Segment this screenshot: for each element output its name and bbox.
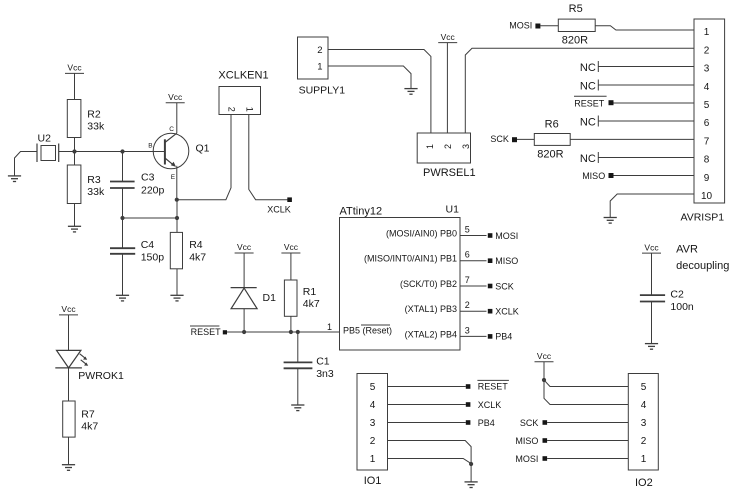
wire SCK to R6 — [517, 138, 534, 140]
svg-text:Vcc: Vcc — [644, 242, 659, 252]
pin 3 U1 PB4 — [405, 325, 487, 339]
svg-text:(MOSI/AIN0) PB0: (MOSI/AIN0) PB0 — [386, 229, 457, 239]
svg-text:PWROK1: PWROK1 — [78, 370, 124, 382]
wire Vcc to R1 — [290, 253, 292, 280]
svg-text:1: 1 — [327, 322, 332, 332]
power Vcc (above IO2) — [535, 351, 554, 362]
wire R4 to ground — [176, 269, 178, 296]
pin 6 U1 PB1 — [364, 250, 487, 264]
svg-text:3: 3 — [704, 64, 710, 75]
connector SUPPLY1 — [298, 37, 346, 97]
svg-text:MOSI: MOSI — [509, 20, 532, 30]
node MOSI net label (R5) — [509, 20, 540, 30]
svg-text:SUPPLY1: SUPPLY1 — [299, 85, 346, 97]
svg-text:7: 7 — [704, 136, 710, 147]
svg-text:U1: U1 — [446, 204, 460, 216]
node MISO net label (U1) — [488, 256, 519, 266]
wire SCK to IO2 pin3 — [547, 422, 628, 424]
svg-text:2: 2 — [370, 436, 376, 447]
crystal U2 — [37, 133, 59, 163]
svg-text:U2: U2 — [38, 133, 52, 145]
wire R6 to AVRISP1 pin7 — [570, 138, 694, 140]
node MOSI net label (IO2) — [515, 454, 547, 464]
LED PWROK1 — [55, 350, 124, 381]
wire MISO to AVRISP1 pin9 — [614, 175, 695, 177]
wire MISO to IO2 pin2 — [547, 440, 628, 442]
ground (below C1) — [291, 405, 304, 411]
ground (left of U2) — [8, 176, 21, 182]
svg-text:2: 2 — [317, 45, 322, 56]
svg-text:4k7: 4k7 — [189, 251, 206, 263]
node junction C1 on rail — [296, 330, 300, 334]
svg-text:2: 2 — [227, 107, 237, 112]
wire R5 to AVRISP1 pin1 — [595, 26, 694, 30]
svg-text:R5: R5 — [569, 3, 583, 15]
svg-text:B: B — [148, 143, 152, 150]
svg-text:Vcc: Vcc — [237, 242, 252, 252]
wire Vcc to IO2 junction — [543, 362, 545, 380]
svg-text:33k: 33k — [87, 186, 105, 198]
svg-text:Vcc: Vcc — [284, 242, 299, 252]
svg-text:(SCK/T0) PB2: (SCK/T0) PB2 — [400, 279, 457, 289]
wire C2 to ground — [651, 302, 653, 344]
svg-text:3n3: 3n3 — [316, 368, 334, 380]
svg-text:PB4: PB4 — [478, 418, 495, 428]
wire junction to IO2 pin5 — [544, 380, 628, 387]
resistor R4 4k7 — [170, 232, 206, 268]
node RESET net label (IO1) — [466, 380, 509, 391]
svg-text:R4: R4 — [189, 239, 203, 251]
svg-text:RESET: RESET — [574, 98, 605, 108]
wire IO1 pin3 to PB4 — [388, 422, 466, 424]
wire IO1 pin4 to XCLK — [388, 404, 466, 406]
svg-text:4k7: 4k7 — [303, 298, 320, 310]
pin 7 U1 PB2 — [400, 275, 487, 289]
wire Vcc to C2 — [651, 253, 653, 295]
wire node A to Q1 base — [75, 151, 165, 153]
connector XCLKEN1 — [218, 70, 268, 115]
wire Vcc to PWRSEL1 pin2 — [446, 43, 448, 133]
node junction emitter — [175, 198, 179, 202]
wire SUPPLY1 pin2 to PWRSEL1 pin1 — [328, 50, 431, 134]
svg-text:NC: NC — [580, 62, 596, 74]
svg-text:NC: NC — [580, 116, 596, 128]
svg-text:33k: 33k — [87, 121, 105, 133]
node MOSI net label (U1) — [488, 231, 519, 241]
capacitor C3 220p — [110, 152, 165, 219]
svg-text:RESET: RESET — [191, 327, 222, 337]
svg-text:PWRSEL1: PWRSEL1 — [423, 167, 476, 179]
svg-text:5: 5 — [370, 382, 376, 393]
wire R2 to node A — [74, 138, 76, 152]
connector AVRISP1 — [681, 19, 725, 224]
svg-text:XCLK: XCLK — [267, 205, 291, 215]
wire RESET rail to U1 pin1 — [227, 331, 340, 333]
svg-text:C1: C1 — [316, 356, 330, 368]
wire Vcc to LED — [68, 315, 70, 351]
ground (below R4) — [170, 295, 183, 301]
connector PWRSEL1 — [417, 133, 475, 179]
svg-text:1: 1 — [245, 107, 255, 112]
wire Vcc to D1 — [243, 253, 245, 288]
wire PWRSEL1 pin3 to AVRISP1 pin2 — [465, 48, 694, 133]
svg-text:PB4: PB4 — [495, 332, 512, 342]
svg-text:1: 1 — [425, 144, 435, 149]
wire IO1 pin1 to ground node — [388, 459, 472, 464]
node junction D1 on rail — [242, 330, 246, 334]
svg-text:150p: 150p — [141, 251, 165, 263]
svg-text:PB5 (Reset): PB5 (Reset) — [343, 325, 392, 335]
wire IO1 pin2 to ground node — [388, 441, 472, 465]
svg-text:2: 2 — [443, 144, 453, 149]
svg-text:3: 3 — [461, 144, 471, 149]
svg-text:1: 1 — [317, 62, 322, 73]
svg-text:(XTAL2) PB4: (XTAL2) PB4 — [405, 329, 457, 339]
node junction bus right — [175, 216, 179, 220]
resistor R1 4k7 — [284, 280, 319, 316]
note AVR decoupling — [676, 243, 729, 272]
ground (below R3) — [68, 226, 81, 232]
node SCK net label (U1) — [488, 281, 514, 291]
svg-text:3: 3 — [641, 418, 647, 429]
svg-text:3: 3 — [370, 418, 376, 429]
svg-text:Vcc: Vcc — [67, 63, 82, 73]
wire NC to AVRISP1 pin3 — [598, 66, 694, 68]
node MISO net label (IO2) — [515, 436, 547, 446]
svg-text:MISO: MISO — [495, 256, 518, 266]
svg-text:820R: 820R — [537, 149, 563, 161]
svg-text:AVR: AVR — [676, 243, 698, 255]
wire ground to crystal U2 — [15, 152, 38, 176]
svg-text:MOSI: MOSI — [515, 454, 538, 464]
ground (below AVRISP1 pin10) — [604, 218, 617, 224]
wire bus C3-R4 — [123, 217, 178, 219]
svg-text:MISO: MISO — [582, 171, 605, 181]
svg-text:D1: D1 — [263, 292, 277, 304]
wire MOSI to R5 — [540, 25, 558, 27]
power Vcc (above C2) — [642, 242, 661, 253]
svg-text:Vcc: Vcc — [537, 351, 552, 361]
svg-text:E: E — [171, 174, 176, 181]
power Vcc (above PWROK1) — [59, 304, 78, 315]
resistor R3 33k — [67, 165, 105, 204]
capacitor C4 150p — [110, 218, 164, 295]
wire SUPPLY1 pin1 to ground — [328, 66, 411, 89]
node junction C3 tap — [120, 149, 124, 153]
svg-text:9: 9 — [704, 173, 710, 184]
node NC pin8 — [580, 152, 598, 165]
power Vcc (above D1) — [235, 242, 254, 253]
svg-text:SCK: SCK — [495, 281, 514, 291]
svg-text:C3: C3 — [141, 172, 155, 184]
svg-text:(MISO/INT0/AIN1) PB1: (MISO/INT0/AIN1) PB1 — [364, 254, 457, 264]
svg-text:1: 1 — [370, 454, 376, 465]
connector IO1 — [357, 374, 388, 487]
svg-text:C2: C2 — [670, 289, 684, 301]
node XCLK net label — [267, 197, 292, 214]
wire R7 to ground — [68, 437, 70, 465]
node XCLK net label (IO1) — [466, 400, 502, 410]
svg-text:MISO: MISO — [515, 436, 538, 446]
pin 2 U1 PB3 — [405, 300, 487, 314]
wire node A to R3 — [74, 152, 76, 166]
node MISO net label (AVRISP1 pin9) — [582, 171, 613, 181]
svg-text:NC: NC — [580, 80, 596, 92]
pin 5 U1 PB0 — [386, 225, 487, 239]
wire IO1 pin5 to RESET — [388, 386, 466, 388]
svg-text:220p: 220p — [141, 185, 165, 197]
svg-text:Q1: Q1 — [196, 143, 210, 155]
svg-text:4: 4 — [370, 400, 376, 411]
node SCK net label (IO2) — [520, 418, 547, 428]
power Vcc (above R2) — [65, 63, 84, 74]
svg-text:4: 4 — [641, 400, 647, 411]
svg-text:AVRISP1: AVRISP1 — [681, 212, 725, 224]
svg-text:3: 3 — [465, 325, 470, 335]
svg-text:R2: R2 — [87, 109, 101, 121]
svg-text:1: 1 — [704, 27, 710, 38]
ground (below IO1) — [465, 482, 478, 488]
svg-text:5: 5 — [465, 225, 470, 235]
svg-text:7: 7 — [465, 275, 470, 285]
wire Q1 emitter down — [176, 166, 178, 200]
svg-text:RESET: RESET — [478, 382, 509, 392]
svg-text:MOSI: MOSI — [495, 231, 518, 241]
svg-text:2: 2 — [465, 300, 470, 310]
capacitor C2 100n — [640, 289, 694, 313]
power Vcc (above Q1) — [166, 92, 185, 103]
ground (below SUPPLY1 pin1) — [404, 89, 417, 95]
pin 1 U1 PB5 — [327, 322, 392, 335]
power Vcc (above R1) — [281, 242, 300, 253]
wire RESET to AVRISP1 pin5 — [614, 102, 695, 104]
svg-text:R1: R1 — [303, 286, 317, 298]
node A junction (R2/R3/U2/base) — [72, 149, 76, 153]
wire AVRISP1 pin10 to ground — [610, 194, 694, 218]
node PB4 net label (IO1) — [466, 418, 495, 428]
svg-text:6: 6 — [704, 118, 710, 129]
wire XCLKEN1 pin1 to XCLK — [249, 115, 288, 200]
svg-text:XCLKEN1: XCLKEN1 — [218, 70, 268, 82]
wire Vcc to Q1 collector — [176, 103, 178, 134]
wire D1 to RESET rail — [243, 309, 245, 332]
node junction R1 on rail — [289, 330, 293, 334]
wire R1 to RESET rail — [290, 316, 292, 332]
svg-text:5: 5 — [641, 382, 647, 393]
svg-text:Vcc: Vcc — [168, 92, 183, 102]
svg-text:ATtiny12: ATtiny12 — [340, 206, 383, 218]
svg-text:SCK: SCK — [520, 418, 539, 428]
resistor R5 820R — [558, 3, 595, 47]
transistor Q1 — [148, 126, 209, 181]
power Vcc (above PWRSEL1) — [438, 32, 457, 43]
node RESET net label (left) — [190, 326, 227, 337]
resistor R6 820R — [534, 119, 570, 161]
node RESET net label (AVRISP1 pin5) — [574, 96, 614, 108]
wire NC to AVRISP1 pin4 — [598, 84, 694, 86]
svg-text:Vcc: Vcc — [61, 304, 76, 314]
IC U1 ATtiny12 body — [340, 204, 461, 351]
svg-text:XCLK: XCLK — [478, 400, 502, 410]
node SCK net label (R6) — [490, 134, 517, 144]
svg-text:2: 2 — [641, 436, 647, 447]
svg-text:4: 4 — [704, 82, 710, 93]
svg-text:NC: NC — [580, 153, 596, 165]
svg-text:IO2: IO2 — [635, 477, 653, 489]
svg-text:C4: C4 — [141, 239, 155, 251]
svg-text:10: 10 — [701, 191, 713, 202]
wire emitter node to R4 — [176, 200, 178, 233]
svg-text:XCLK: XCLK — [495, 307, 519, 317]
wire LED to R7 — [68, 368, 70, 401]
svg-text:5: 5 — [704, 100, 710, 111]
svg-text:8: 8 — [704, 155, 710, 166]
svg-text:1: 1 — [641, 454, 647, 465]
resistor R2 33k — [67, 100, 105, 138]
node junction IO2 Vcc — [542, 378, 546, 382]
svg-text:(XTAL1) PB3: (XTAL1) PB3 — [405, 304, 457, 314]
ground (below R7) — [62, 465, 75, 471]
svg-text:Vcc: Vcc — [441, 32, 456, 42]
svg-text:C: C — [169, 126, 174, 133]
wire Vcc to R2 — [74, 73, 76, 99]
wire junction to IO2 pin4 — [544, 380, 628, 405]
capacitor C1 3n3 — [284, 332, 334, 405]
svg-text:100n: 100n — [670, 301, 694, 313]
svg-text:decoupling: decoupling — [676, 260, 729, 272]
node PB4 net label (U1) — [488, 332, 513, 342]
wire U2 to node A — [59, 151, 75, 153]
wire junction to ground — [470, 464, 472, 482]
svg-text:820R: 820R — [562, 35, 588, 47]
node XCLK net label (U1) — [488, 307, 519, 317]
node junction IO1 ground — [469, 462, 473, 466]
svg-text:R3: R3 — [87, 174, 101, 186]
node junction C3 bottom on bus — [120, 216, 124, 220]
svg-text:2: 2 — [704, 45, 710, 56]
wire XCLKEN1 pin2 to emitter node — [177, 115, 231, 200]
node NC pin3 — [580, 61, 598, 74]
connector IO2 — [628, 374, 658, 489]
wire R3 to ground — [74, 204, 76, 227]
svg-text:IO1: IO1 — [364, 475, 382, 487]
diode D1 — [231, 288, 276, 309]
wire NC to AVRISP1 pin8 — [598, 157, 694, 159]
svg-text:4k7: 4k7 — [81, 421, 98, 433]
svg-text:6: 6 — [465, 250, 470, 260]
ground (below C2) — [645, 344, 658, 350]
svg-text:SCK: SCK — [490, 134, 509, 144]
node NC pin4 — [580, 80, 598, 93]
wire NC to AVRISP1 pin6 — [598, 120, 694, 122]
resistor R7 4k7 — [63, 401, 99, 437]
svg-text:R6: R6 — [545, 119, 559, 131]
node NC pin6 — [580, 116, 598, 129]
wire MOSI to IO2 pin1 — [547, 458, 628, 460]
svg-text:R7: R7 — [81, 409, 95, 421]
ground (below C4) — [116, 295, 129, 301]
